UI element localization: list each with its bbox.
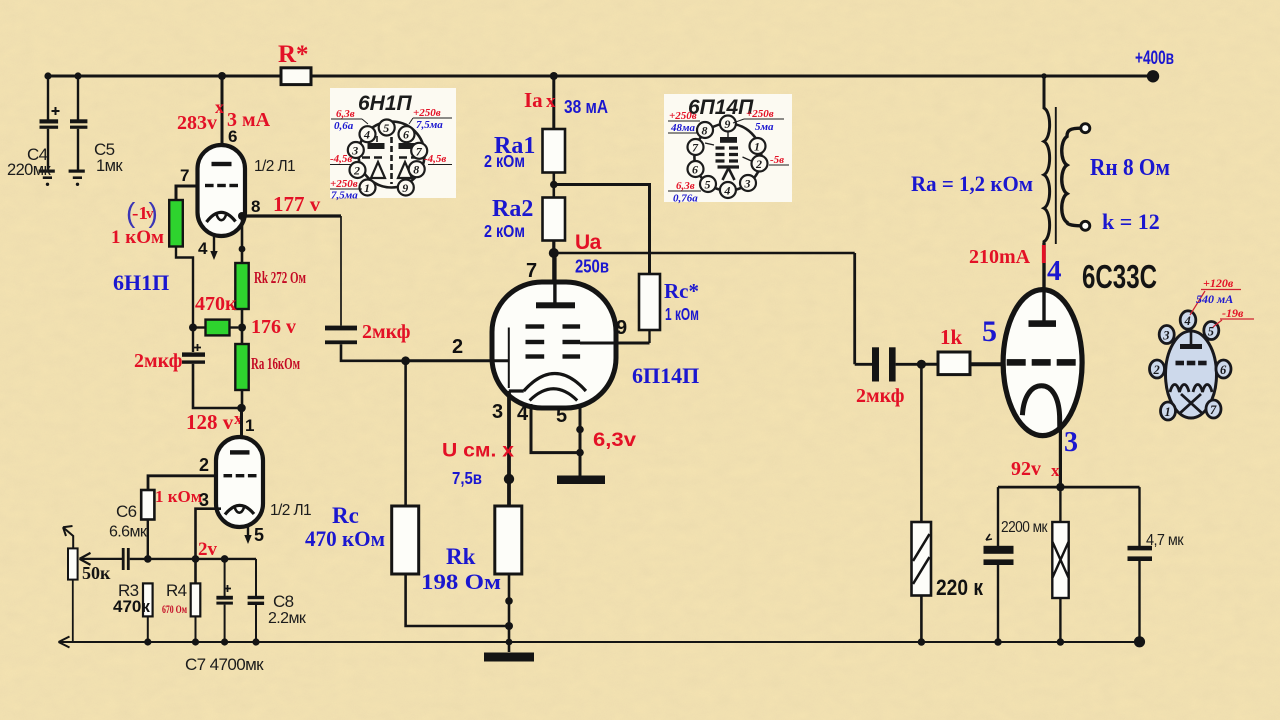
triode V3 6C33C envelope [1003,290,1082,436]
pinout 6П14П internal pentode glyph [705,129,752,180]
pinout 6Н1П base circle [359,122,425,188]
svg-text:2 кОм: 2 кОм [484,151,525,171]
junction Ra1/Ra2/Rc* [550,181,558,189]
socket pin 4 [1180,311,1196,329]
wire R3 bottom [147,616,149,642]
junction rail/R3 [144,638,151,645]
resistor R* [281,68,311,85]
socket glyph anode [1190,328,1193,345]
pinout 6П14П pin 6 [688,161,704,177]
svg-text:4: 4 [1184,314,1191,328]
svg-text:2: 2 [1153,363,1160,377]
socket pin 7 [1206,400,1221,418]
transformer T1 secondary terminal bottom [1081,221,1090,230]
pentode V2 grid dashes row2 [526,340,545,344]
pinout 6Н1П pin 4 [360,126,376,142]
socket glyph grid dashes [1176,361,1185,366]
svg-text:-4,5в: -4,5в [424,153,446,165]
junction 7,5в node [504,474,514,484]
triode V3 cathode hook [1022,386,1059,430]
svg-text:128 v: 128 v [186,410,234,434]
wire top +400V bus right segment [311,75,1154,78]
svg-text:6: 6 [1220,363,1227,377]
svg-text:x: x [1051,461,1060,480]
junction node Ua [549,248,559,258]
svg-text:6: 6 [403,128,409,142]
pinout 6П14П pin 5 [700,176,716,192]
pinout 6П14П pin 1 [750,138,766,154]
capacitor C5 lead bottom [77,129,79,170]
potentiometer wiper wire with arrow [80,558,123,560]
svg-text:6Н1П: 6Н1П [113,270,169,295]
svg-text:1: 1 [245,416,254,435]
resistor Ra 16кОм (green) [235,344,248,390]
wire V2 heater pin 4 [531,404,580,453]
triode V1a cathode arc [207,212,236,222]
pinout 6П14П pin 8 [697,122,713,138]
svg-text:Ra = 1,2 кОм: Ra = 1,2 кОм [911,171,1033,196]
svg-text:+250в: +250в [413,107,441,119]
svg-text:670 Ом: 670 Ом [162,602,187,616]
svg-text:2мкф: 2мкф [362,321,411,343]
svg-text:4: 4 [198,239,208,258]
triode V1a grid dashes [205,184,214,187]
svg-text:4: 4 [363,128,370,142]
junction rail/220к [918,638,925,645]
pinout 6Н1П pin 8 [409,161,425,177]
svg-text:5: 5 [556,405,567,427]
wire bias branch [176,247,193,353]
wire to Rc* top [554,185,650,275]
svg-text:k = 12: k = 12 [1102,209,1160,234]
wire V1b anode lead [240,408,243,452]
pentode V2 grid dashes row1 [526,324,545,328]
junction cathode network top [1056,483,1064,491]
wire 1kOm to C6 node [147,520,149,560]
svg-text:6П14П: 6П14П [688,96,754,119]
junction node 176v [238,324,246,332]
junction Rk bottom [505,597,513,605]
resistor Ra1 [543,129,566,173]
pinout 6Н1П pin 6 [399,126,415,142]
wire Ra1-Ra2 [552,173,555,198]
junction rail/C7 [221,638,228,645]
svg-text:7: 7 [692,141,699,155]
capacitor C7 lead top [224,559,226,596]
transformer T1 secondary winding [1062,128,1081,226]
svg-text:x: x [215,97,224,117]
pentode V2 grid dashes row3 [526,354,545,358]
pinout 6П14П pin 2 [752,156,768,172]
svg-text:38 мА: 38 мА [564,97,608,117]
wire 2v node row [130,558,256,560]
svg-text:6Н1П: 6Н1П [358,92,413,115]
socket 6C33C body [1166,331,1217,418]
svg-text:Rн 8 Ом: Rн 8 Ом [1090,155,1170,181]
capacitor 2мкф coupling-1 lead top [340,216,342,326]
svg-text:4: 4 [723,184,730,198]
capacitor C4 plates [40,119,59,123]
pinout 6П14П pin 7 [688,139,704,155]
socket glyph heater squiggles [1170,385,1189,393]
svg-text:6,3v: 6,3v [593,430,636,451]
wire V1a grid pin 7 lead [176,186,198,200]
resistor Rc 470 кОм [392,506,419,574]
svg-text:3: 3 [492,401,503,423]
pentode V2 (6P14P) envelope [492,282,616,408]
wire V2 cathode pin 3 lead [507,391,511,506]
svg-text:Ia: Ia [524,88,543,112]
wire Rk bottom to ground [508,574,511,652]
junction 6,3v [576,426,584,434]
junction bus/Ra1 [550,72,558,80]
resistor Rk 272 Ом (green) [235,263,248,309]
pentode V2 control grid support [508,328,510,389]
wire Ra16k to node 128v [241,390,244,408]
wire V1b grid pin 2 lead [148,476,216,490]
svg-text:220мк: 220мк [7,161,51,179]
socket pin 3 [1159,326,1174,344]
svg-text:Rk 272 Ом: Rk 272 Ом [254,268,306,287]
junction node 128v [237,404,246,413]
junction row/C7 [221,555,229,563]
svg-text:2мкф: 2мкф [134,350,183,372]
svg-text:250в: 250в [575,257,609,277]
svg-text:176 v: 176 v [251,316,296,338]
junction rail/2200мк [994,638,1001,645]
svg-text:-4,5в: -4,5в [330,153,352,165]
wire 177v line [242,214,341,217]
svg-text:9: 9 [402,181,408,195]
junction V1a cathode pin 8 [238,212,246,220]
ground heater bar [557,476,605,485]
resistor grid 1 кОм (green) [169,200,183,247]
svg-text:0,76а: 0,76а [673,193,698,205]
svg-text:1 кОм: 1 кОм [665,304,699,324]
capacitor 2200мк plates [984,546,1014,554]
svg-text:R*: R* [278,41,309,68]
wire V1b heater pin 5 arrow [247,527,249,536]
svg-text:48ма: 48ма [670,122,696,134]
ground rail bottom [60,641,1139,643]
ground under C5 [69,170,85,173]
svg-text:7: 7 [1210,403,1217,417]
svg-text:x: x [546,91,556,112]
svg-text:220 к: 220 к [936,575,984,600]
svg-text:7,5ма: 7,5ма [416,119,443,131]
svg-text:Ra2: Ra2 [492,196,533,222]
svg-text:4: 4 [1047,255,1062,287]
resistor 220к lead bottom [920,596,923,643]
wire Rc bottom to Rk bottom [406,574,509,626]
capacitor 2мкф coupling-2 leads [855,363,872,366]
resistor 1k [938,352,970,375]
junction cathode/Rk272 [239,246,246,253]
pinout 6П14П pin 9 [720,116,736,132]
junction rail/C8 [252,638,259,645]
svg-text:-19в: -19в [1222,306,1244,320]
resistor R3 470к [143,583,153,616]
wire coupling-1 bottom to grid node [341,344,406,361]
pinout box 6П14П background [664,94,792,202]
svg-text:6: 6 [228,127,237,146]
svg-text:7: 7 [180,166,189,185]
triode V3 grid dashes [1007,359,1026,366]
wire V1a anode lead [221,76,224,164]
capacitor 2200мк lead top [997,487,999,546]
svg-text:6: 6 [692,163,698,177]
wire pin 9 screen lead [580,342,650,345]
junction bus/C4 [44,72,51,79]
svg-text:8: 8 [702,124,708,138]
junction row/R4 [192,555,200,563]
transformer T1 primary winding [1044,76,1050,243]
pinout 6Н1П pin 3 [348,142,364,158]
pinout 6Н1П pin 1 [360,180,376,196]
pinout 6Н1П pin 2 [350,162,366,178]
resistor 470к (green horizontal) [193,326,206,328]
potentiometer bottom lead [72,580,74,642]
svg-text:4,7 мк: 4,7 мк [1146,532,1184,549]
triode V3 anode lead [1042,243,1045,321]
triode V1b (1/2 6N1P) envelope [216,437,263,527]
junction grid node 6C33C [917,360,926,369]
capacitor C8 plates [248,596,265,599]
svg-text:470к: 470к [113,597,150,616]
svg-text:+400в: +400в [1135,48,1174,69]
svg-text:9: 9 [724,117,730,131]
wire V1b cathode pin 3 lead [196,509,222,584]
svg-text:+120в: +120в [1203,276,1234,290]
svg-text:2: 2 [755,157,762,171]
svg-text:Ua: Ua [575,231,602,254]
wire cathode to Rk272 [241,216,244,263]
svg-text:2: 2 [353,164,360,178]
wire V2 grid pin 2 lead [406,359,509,362]
wire Ra2 to anode node Ua [552,241,555,288]
svg-text:7,5ма: 7,5ма [331,190,358,202]
triode V1b cathode arc [225,505,254,514]
svg-text:177 v: 177 v [273,192,321,216]
capacitor C7 polarity plus [224,585,231,592]
svg-text:7: 7 [526,260,537,282]
pinout 6Н1П pin 5 [379,120,395,136]
pinout 6Н1П pin 9 [398,180,414,196]
svg-text:1: 1 [1165,405,1171,419]
svg-text:3: 3 [199,490,209,510]
capacitor C8 lead top [255,559,257,596]
pinout 6П14П pin 4 [720,182,736,198]
svg-text:6П14П: 6П14П [632,363,699,388]
svg-text:Rk: Rk [446,544,476,569]
svg-text:2мкф: 2мкф [856,385,905,407]
svg-text:283v: 283v [177,112,217,134]
capacitor C4 polarity plus [52,107,60,115]
transformer T1 core [1055,107,1057,244]
wire R4 bottom [195,616,197,642]
svg-text:4: 4 [517,403,529,425]
triode V1a anode bar [212,162,232,166]
svg-text:Ra 16кОм: Ra 16кОм [251,354,300,373]
socket pin 2 [1150,360,1165,378]
svg-text:1/2 Л1: 1/2 Л1 [254,158,295,175]
svg-text:C8: C8 [273,592,294,611]
potentiometer top lead with arrow [63,527,73,548]
wire bypass bottom [193,364,242,408]
junction rail/battery [1057,638,1064,645]
capacitor 4,7 мк lead bottom [1138,561,1140,642]
svg-text:1: 1 [364,181,370,195]
svg-text:2.2мк: 2.2мк [268,610,307,627]
resistor grid stopper 1 кОм (white) [141,490,154,520]
svg-text:5ма: 5ма [755,121,774,133]
triode V1a (1/2 6N1P) envelope [198,145,246,236]
wire V1a heater pin 4 arrow [213,236,215,252]
triode V1b grid dashes [224,474,233,477]
wire top +400V bus left segment [48,75,281,78]
capacitor 4,7 мк lead top [1138,487,1140,546]
svg-text:3: 3 [1162,329,1169,343]
resistor R4 [191,583,201,616]
pinout 6П14П base circle [694,124,761,191]
pinout 6П14П pin 3 [740,175,756,191]
capacitor 2200мк polarity mark [986,534,992,540]
svg-text:2v: 2v [198,539,218,560]
resistor Ra2 [543,198,566,241]
svg-text:+250в: +250в [330,178,358,190]
svg-text:2 кОм: 2 кОм [484,221,525,241]
svg-text:5: 5 [705,178,711,192]
pinout box 6Н1П background [330,88,456,198]
resistor 220к lead top [920,364,923,522]
triode V3 anode bar [1029,320,1057,327]
capacitor 2200мк lead bottom [997,565,999,642]
junction row/R3 [144,555,152,563]
capacitor C5 lead top [77,76,79,120]
junction bias/470k [189,324,197,332]
svg-text:3: 3 [1064,427,1078,458]
svg-text:2200 мк: 2200 мк [1001,519,1048,536]
wire Rk272 to node 176v [241,309,244,344]
socket pin 1 [1161,402,1176,420]
node rail end dot [1134,636,1145,647]
measure tick 210mA [1042,245,1046,263]
svg-text:7,5в: 7,5в [452,468,482,488]
wire Ra1 top lead [552,76,555,129]
transformer T1 secondary terminal top [1081,124,1090,133]
svg-text:5: 5 [383,121,389,135]
svg-text:6,3в: 6,3в [676,180,695,192]
svg-text:): ) [149,197,158,228]
pinout 6Н1П internal double triode glyph [362,128,419,184]
svg-text:U см. x: U см. x [442,441,514,462]
socket pin 5 [1204,322,1219,340]
capacitor C4 lead top [47,76,49,120]
wire V2 heater pin 5 [579,404,582,476]
svg-text:1 кОм: 1 кОм [155,487,203,506]
svg-text:540 мА: 540 мА [1196,292,1233,306]
pentode V2 cathode arcs [509,374,586,392]
svg-text:210mA: 210mA [969,246,1031,268]
svg-text:1 кОм: 1 кОм [111,227,164,248]
ground under C4 [39,170,55,173]
svg-text:198 Ом: 198 Ом [421,569,501,594]
resistor Rc* 1 кОм [639,274,660,330]
capacitor C8 lead bottom [255,605,257,642]
wire Rc* bottom to pin 9 [648,330,650,343]
pentode V2 anode lead pin 7 [553,253,556,303]
ground bar main [484,653,534,662]
svg-text:+250в: +250в [669,110,697,122]
junction bus/V1a anode [218,72,226,80]
junction bus/C5 [74,72,81,79]
svg-text:3: 3 [351,144,358,158]
pentode V2 anode bar [536,302,575,308]
junction grid node / Rc [401,356,410,365]
svg-text:1: 1 [754,140,760,154]
svg-text:9: 9 [616,317,627,339]
svg-text:1мк: 1мк [96,157,123,175]
capacitor C7 lead bottom [224,605,226,642]
svg-text:6.6мк: 6.6мк [109,524,148,541]
wire Ua line drop to coupling-2 [853,253,856,364]
capacitor C5 plates [70,119,87,123]
wire cathode network top row [998,486,1140,489]
socket pin 6 [1216,360,1231,378]
capacitor C4 lead bottom [47,129,49,170]
svg-text:C7 4700мк: C7 4700мк [185,655,264,674]
svg-text:2: 2 [199,455,209,475]
capacitor 2мкф coupling-1 plates [325,326,357,331]
svg-text:7: 7 [416,144,423,158]
svg-text:R4: R4 [166,581,187,600]
node +400в endpoint dot [1147,70,1159,82]
svg-text:470к: 470к [195,293,237,315]
resistor 1k leads [921,363,938,366]
capacitor 2мкф polarity plus [194,344,201,351]
triode V1b anode bar [230,450,250,454]
svg-text:6,3в: 6,3в [336,108,355,120]
svg-text:8: 8 [251,197,260,216]
capacitor C6 plates [122,548,125,570]
pinout 6Н1П pin 7 [411,143,427,159]
wire Rc top lead [404,361,407,506]
svg-text:1/2 Л1: 1/2 Л1 [270,502,311,519]
svg-text:470 кОм: 470 кОм [305,526,385,551]
svg-text:50к: 50к [82,563,111,583]
svg-text:Rc: Rc [332,503,359,528]
junction bus/transformer [1041,73,1047,79]
capacitor 2мкф bypass plates [182,352,205,356]
svg-text:0,6а: 0,6а [334,120,354,132]
capacitor C7 plates [216,596,233,600]
svg-text:5: 5 [254,525,264,545]
potentiometer 50к body [68,548,78,579]
capacitor 4,7 мк plates [1128,546,1153,551]
svg-text:-5в: -5в [770,154,784,166]
wire Ua line to output coupling [554,252,855,255]
svg-text:8: 8 [413,163,419,177]
svg-text:92v: 92v [1011,458,1041,480]
resistor Rk 198 Ом [495,506,522,574]
svg-text:Rc*: Rc* [664,279,699,303]
battery element box with X [1052,522,1068,598]
svg-text:1k: 1k [940,325,963,349]
resistor 220к body with hatch [912,522,932,596]
svg-text:+250в: +250в [746,108,774,120]
wire V3 cathode pin 3 lead [1059,420,1062,487]
svg-text:6С33С: 6С33С [1082,258,1157,295]
